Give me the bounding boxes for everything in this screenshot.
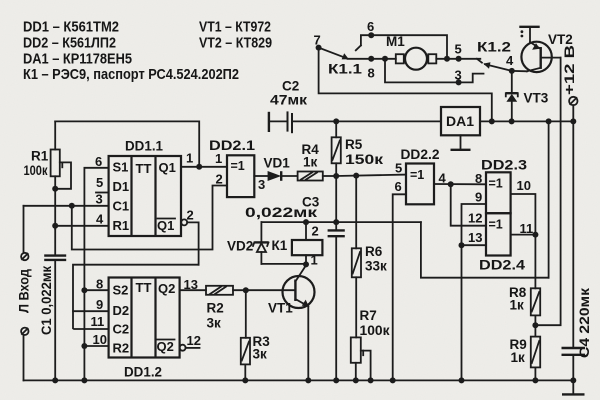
wire DD2.4 output pin 11	[511, 234, 536, 236]
wire Q2-bar stub pin 12	[180, 345, 200, 351]
capacitor C4	[562, 348, 586, 394]
resistor R6	[352, 176, 361, 338]
wire K1.1 common down path	[319, 48, 492, 122]
node S2 ground	[81, 287, 87, 293]
node C3 bus	[333, 377, 339, 383]
node R3 top	[243, 287, 249, 293]
resistor R1 (variable)	[51, 121, 71, 229]
relay contact K1.2	[477, 59, 512, 71]
node R2 ground	[81, 343, 87, 349]
wire Q2 output to R2	[180, 289, 206, 291]
capacitor C3	[328, 176, 345, 380]
svg-text:VT2: VT2	[548, 32, 573, 47]
node ground line to bus	[81, 377, 87, 383]
input terminal upper	[21, 253, 28, 260]
node motor loop branch	[382, 56, 388, 62]
wire pin 13	[462, 244, 487, 246]
svg-text:9: 9	[475, 190, 482, 205]
node R4/R5/C3	[333, 173, 339, 179]
wire S1 pin 6	[84, 168, 108, 381]
wire lower terminal to bus	[23, 335, 25, 380]
svg-text:VT2 – КТ829: VT2 – КТ829	[199, 35, 272, 52]
svg-text:1к: 1к	[511, 350, 526, 365]
+12V terminal	[569, 97, 577, 122]
wire S2 pin 8	[84, 289, 108, 291]
svg-text:TT: TT	[136, 161, 152, 176]
svg-text:2: 2	[312, 224, 319, 239]
node pin 3	[456, 79, 462, 85]
svg-text:С4 220мк: С4 220мк	[577, 288, 592, 358]
wire Q1-bar output pin 2	[181, 219, 198, 264]
DD1.2 flip-flop box	[109, 278, 180, 358]
svg-text:12: 12	[187, 333, 201, 348]
wire DD2.2 pin 6 to bus	[393, 194, 406, 380]
svg-text:R2: R2	[207, 301, 224, 316]
node C1 bus	[52, 377, 58, 383]
resistor R5	[332, 121, 341, 176]
svg-text:2: 2	[216, 172, 223, 187]
svg-text:М1: М1	[386, 34, 405, 49]
ground bar bottom right	[562, 393, 585, 395]
node R8/R9 junction	[532, 322, 538, 328]
wire R2-input pin 10	[84, 345, 108, 347]
svg-text:DA1 – КР1178ЕН5: DA1 – КР1178ЕН5	[23, 51, 132, 68]
node pin9/13 bus	[459, 377, 465, 383]
svg-text:9: 9	[96, 297, 103, 312]
svg-text:2: 2	[187, 208, 194, 223]
svg-text:1к: 1к	[510, 298, 525, 313]
svg-text:VT3: VT3	[524, 91, 549, 106]
wire input terminal riser	[23, 206, 25, 253]
node K1.1 drop	[489, 118, 495, 124]
svg-text:DD1 – К561ТМ2: DD1 – К561ТМ2	[23, 19, 119, 36]
svg-text:11: 11	[91, 314, 105, 329]
node coil top	[303, 219, 309, 225]
node pin6 riser joins	[444, 56, 450, 62]
chassis symbol above VT2	[519, 27, 539, 38]
svg-text:R6: R6	[365, 244, 383, 259]
svg-text:VT1: VT1	[268, 301, 293, 316]
wire clock line to DD1.1 pin 3	[24, 205, 109, 207]
resistor R7 (variable)	[351, 337, 371, 380]
motor M1	[396, 48, 481, 70]
svg-text:3: 3	[258, 177, 265, 192]
svg-text:8: 8	[368, 66, 375, 81]
svg-text:=1: =1	[489, 218, 503, 232]
wire DD1.1 pin4 R input	[55, 225, 108, 227]
svg-text:=1: =1	[489, 177, 503, 191]
DD2.1 xor gate box	[227, 155, 254, 197]
svg-text:R7: R7	[360, 308, 377, 323]
wire DA1 output to +12 rail	[480, 120, 573, 122]
svg-text:DA1: DA1	[446, 113, 474, 129]
node Q1 junction	[196, 164, 202, 170]
wire pin4 to DD2.4 pin 12	[451, 184, 486, 226]
svg-text:Q2: Q2	[157, 339, 174, 354]
svg-text:1: 1	[215, 151, 222, 166]
svg-text:5: 5	[96, 175, 103, 190]
node pin 6	[368, 32, 374, 38]
diode VD2 (zener)	[253, 222, 306, 264]
parts list text block	[23, 19, 239, 84]
wire pin 3 step to contact	[459, 74, 484, 83]
svg-text:VD1: VD1	[264, 156, 291, 171]
svg-text:12: 12	[468, 211, 482, 226]
wire coil top line	[261, 221, 421, 223]
wire D2 pin 9	[73, 310, 109, 312]
svg-text:К1: К1	[272, 238, 288, 253]
node +12 rail	[570, 118, 576, 124]
node pin 5	[456, 56, 462, 62]
svg-text:S1: S1	[113, 160, 129, 175]
node R7 wiper bus	[368, 377, 374, 383]
svg-text:8: 8	[96, 277, 103, 292]
svg-text:DD2.3: DD2.3	[481, 157, 527, 173]
svg-text:1к: 1к	[303, 155, 318, 170]
svg-text:Л Вход: Л Вход	[17, 269, 32, 313]
wire DD2.2 output pin 4	[434, 183, 486, 185]
node pin4 branch	[448, 181, 454, 187]
svg-text:150к: 150к	[345, 152, 383, 167]
node R1 wiper	[52, 186, 58, 192]
svg-text:Q1: Q1	[159, 160, 176, 175]
svg-text:4: 4	[506, 53, 514, 68]
svg-text:8: 8	[475, 171, 482, 186]
node R8 rail top	[546, 118, 552, 124]
node R6 top	[353, 173, 359, 179]
transistor VT2	[521, 27, 560, 72]
wire motor return loop	[385, 59, 459, 83]
node R3 bus	[242, 377, 248, 383]
resistor R2	[206, 286, 295, 295]
svg-text:C1: C1	[113, 199, 130, 214]
capacitor C2	[269, 111, 336, 133]
node VT1 emitter bus	[305, 377, 311, 383]
wire R1 top to Q1 node	[55, 121, 199, 166]
svg-text:Q1: Q1	[157, 218, 174, 233]
svg-text:3к: 3к	[253, 347, 268, 362]
svg-text:R1: R1	[113, 218, 130, 233]
svg-text:C2: C2	[113, 322, 130, 337]
wire pin 4 to VT2	[512, 70, 527, 72]
wire clock branch down	[72, 186, 227, 250]
svg-text:R2: R2	[113, 341, 130, 356]
svg-text:D2: D2	[113, 303, 130, 318]
node pin 4	[509, 68, 515, 74]
wire R4 node to DD2.2 pin 5	[336, 175, 406, 176]
node DD2.2 pin6 bus	[390, 377, 396, 383]
wire coil line riser to R8 node	[421, 222, 549, 278]
node pin9/pin13	[459, 242, 465, 248]
svg-text:4: 4	[96, 212, 104, 227]
svg-text:=1: =1	[410, 168, 424, 182]
resistor R4	[298, 172, 337, 181]
node pin 8	[368, 56, 374, 62]
svg-text:Q2: Q2	[158, 281, 175, 296]
svg-text:=1: =1	[231, 159, 245, 173]
resistor R8	[531, 288, 540, 336]
input terminal lower	[21, 328, 28, 335]
svg-text:33к: 33к	[365, 259, 387, 274]
wire DD2.3 pin 9 loop	[462, 204, 487, 380]
node bus right end	[570, 377, 576, 383]
svg-text:5: 5	[395, 161, 402, 176]
svg-text:47мк: 47мк	[270, 93, 307, 108]
node R9 bottom	[532, 377, 538, 383]
resistor R3	[241, 290, 250, 380]
wire D1 pin 5 stub	[96, 192, 109, 194]
wire DA1 branch rail down	[548, 121, 550, 277]
transistor VT1	[283, 265, 315, 380]
wire contact row to motor	[348, 58, 396, 60]
node pin 11	[532, 232, 538, 238]
svg-text:6: 6	[95, 154, 102, 169]
svg-text:DD1.2: DD1.2	[124, 364, 162, 380]
ground below DA1	[451, 135, 471, 150]
wire Q1-bar to D2 line	[73, 265, 199, 329]
node VT1 collector / K1 pin1	[303, 261, 309, 267]
svg-text:1: 1	[186, 151, 193, 166]
wire DD2.1 output	[254, 175, 267, 177]
wire +12 rail down to C4	[572, 121, 574, 347]
svg-text:S2: S2	[113, 283, 129, 298]
svg-text:D1: D1	[113, 179, 130, 194]
node coil line to C3 column	[333, 219, 339, 225]
wire DD2.3 output pin 10	[511, 194, 536, 288]
relay contact K1.1	[316, 35, 447, 59]
relay coil K1	[292, 222, 323, 264]
svg-text:0,022мк: 0,022мк	[245, 205, 317, 220]
svg-text:VT1 – КТ972: VT1 – КТ972	[199, 19, 271, 36]
ground bus	[24, 379, 574, 381]
svg-text:100к: 100к	[24, 163, 48, 178]
svg-text:6: 6	[367, 19, 374, 34]
svg-text:+12 В: +12 В	[561, 45, 577, 95]
wire VT2 base rail to R8/R9 divider	[535, 58, 560, 326]
DD2.2 xor gate box	[406, 164, 434, 205]
svg-text:VD2: VD2	[227, 239, 253, 254]
voltage regulator DA1	[441, 107, 480, 135]
svg-text:DD2.2: DD2.2	[401, 146, 440, 162]
svg-text:С2: С2	[282, 79, 299, 94]
svg-text:3к: 3к	[207, 316, 222, 331]
svg-text:К1 – РЭС9, паспорт РС4.524.202: К1 – РЭС9, паспорт РС4.524.202П2	[23, 66, 239, 83]
DD1.1 flip-flop box	[109, 156, 181, 236]
svg-text:DD2.4: DD2.4	[479, 257, 525, 273]
svg-text:7: 7	[314, 33, 321, 48]
svg-text:R5: R5	[345, 137, 363, 152]
wire Q1 output to DD2.1 pin1	[181, 166, 227, 168]
svg-text:К1.1: К1.1	[328, 62, 363, 77]
node R5 top	[333, 118, 339, 124]
svg-text:5: 5	[455, 42, 462, 57]
svg-text:6: 6	[395, 179, 402, 194]
wire 5V rail C2 to DA1	[336, 120, 441, 122]
svg-text:3: 3	[96, 192, 103, 207]
node R1 bottom to pin4	[52, 223, 58, 229]
svg-text:3: 3	[455, 68, 462, 83]
svg-text:13: 13	[468, 230, 482, 245]
diode VT3	[506, 71, 518, 122]
svg-text:10: 10	[93, 332, 107, 347]
node VT3 anode	[509, 118, 515, 124]
node R7 bus	[353, 377, 359, 383]
node clock branch	[69, 203, 75, 209]
svg-text:С1 0,022мк: С1 0,022мк	[39, 266, 54, 335]
DD2.3 xor gate box	[486, 172, 511, 213]
svg-text:100к: 100к	[360, 323, 390, 338]
DD2.4 xor gate box	[486, 213, 511, 255]
svg-text:TT: TT	[136, 280, 152, 295]
svg-text:R1: R1	[31, 149, 49, 164]
svg-text:DD1.1: DD1.1	[125, 138, 163, 154]
svg-text:10: 10	[517, 178, 531, 193]
diode VD1	[268, 171, 298, 181]
transistor list text block	[199, 19, 272, 52]
capacitor C1	[44, 229, 66, 380]
resistor R9	[531, 337, 540, 381]
svg-text:DD2 – К561ЛП2: DD2 – К561ЛП2	[23, 35, 116, 52]
